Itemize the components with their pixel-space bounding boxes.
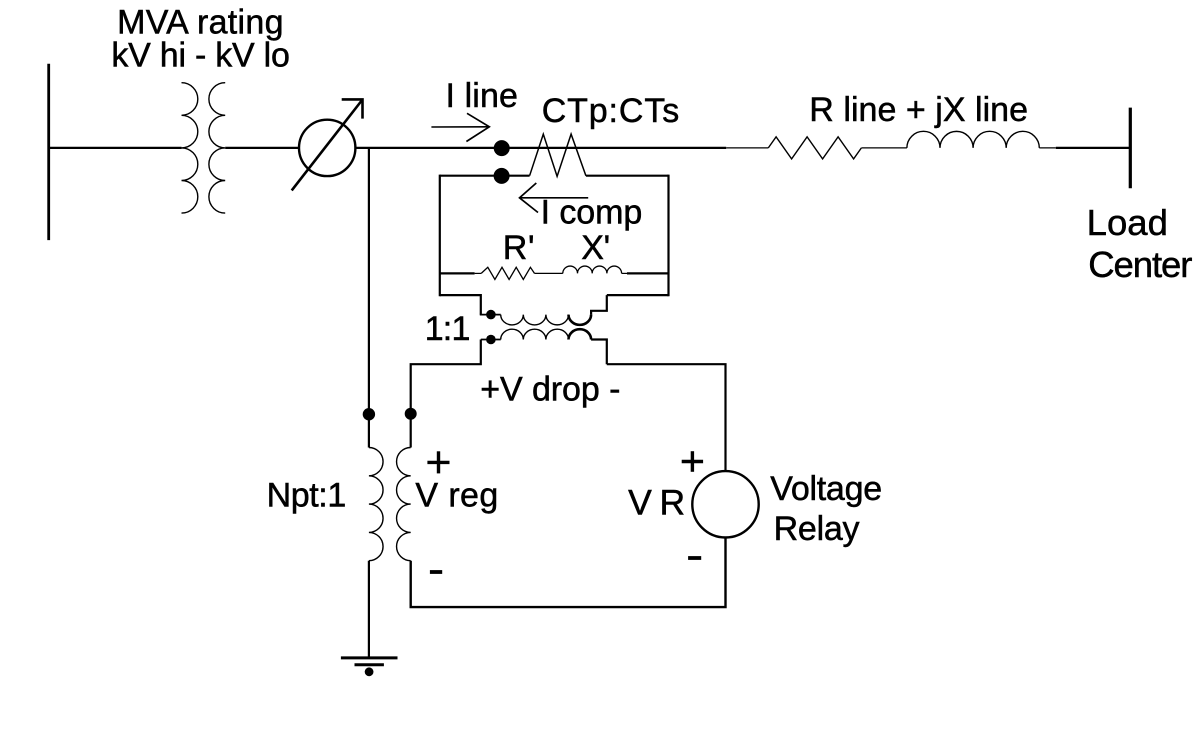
svg-text:Center: Center <box>1088 244 1192 285</box>
label V reg minus (drawn) <box>430 570 442 574</box>
svg-text:V R: V R <box>628 482 684 522</box>
wire relay bottom loop <box>411 538 726 608</box>
wire box left edge <box>439 175 441 297</box>
arrow I line shaft <box>431 126 488 128</box>
node junction on main line <box>494 140 510 156</box>
wire R' to X' <box>535 272 563 274</box>
wire Npt primary to ground <box>368 561 370 658</box>
polarity dot Npt left winding <box>363 408 375 420</box>
svg-text:CTp:CTs: CTp:CTs <box>542 92 680 130</box>
arrow I comp shaft <box>520 197 589 199</box>
regulator arrow shaft <box>292 100 363 191</box>
wire jX line lead out <box>1039 147 1056 149</box>
polarity dot Npt right winding <box>405 408 417 420</box>
current transformer CT zigzag <box>530 134 586 176</box>
wire notch left vertical <box>480 294 482 315</box>
resistor R' zigzag <box>481 267 534 279</box>
wire 1:1 top right hook <box>591 295 607 315</box>
transformer T1 secondary winding (kV lo) <box>209 83 225 213</box>
arrow I line head <box>466 113 489 141</box>
wire X' to box right edge <box>627 272 669 274</box>
label relay plus (drawn) <box>682 460 703 463</box>
polarity dot 1:1 bottom <box>486 335 496 345</box>
transformer T1 primary winding (kV hi) <box>182 83 198 213</box>
transformer 1:1 top winding <box>501 315 569 325</box>
wire regulator to R line (main feeder) <box>355 147 726 149</box>
wire lead R' <box>475 272 482 274</box>
wire lead X' out <box>622 272 627 274</box>
svg-text:Npt:1: Npt:1 <box>267 477 346 515</box>
ground bar 1 <box>341 656 398 659</box>
inductor jX line <box>907 131 1039 148</box>
wire V drop right to relay <box>607 364 726 471</box>
transformer Npt primary winding <box>369 448 383 561</box>
wire to load center bus <box>1056 147 1131 149</box>
regulator arrowhead <box>342 99 363 118</box>
wire box bottom left <box>440 294 481 296</box>
svg-text:R': R' <box>503 229 535 267</box>
svg-text:1:1: 1:1 <box>425 310 470 348</box>
svg-text:Load: Load <box>1087 202 1168 243</box>
svg-text:I comp: I comp <box>541 193 643 231</box>
ground dot <box>365 667 374 676</box>
inductor X' <box>563 266 622 273</box>
wire to 1:1 bottom winding <box>481 339 501 341</box>
svg-text:+V drop -: +V drop - <box>480 371 620 409</box>
wire lead into R line resistor <box>726 147 768 149</box>
wire R line to jX line <box>861 147 907 149</box>
wire bus to transformer T1 <box>49 147 182 149</box>
label V reg plus (drawn) <box>427 461 449 464</box>
transformer 1:1 top winding last turn (bold) <box>569 315 592 325</box>
wire box bottom right <box>607 294 669 296</box>
wire to R' resistor <box>440 272 475 274</box>
svg-text:V reg: V reg <box>415 477 498 515</box>
svg-text:Relay: Relay <box>774 510 860 548</box>
node tap to compensator box <box>494 168 510 184</box>
wire to 1:1 top winding <box>480 314 501 316</box>
transformer 1:1 bottom winding <box>501 329 569 339</box>
bus bar load center <box>1129 108 1132 189</box>
svg-text:R line + jX line: R line + jX line <box>809 91 1028 129</box>
svg-text:Voltage: Voltage <box>770 470 882 508</box>
svg-text:kV hi - kV lo: kV hi - kV lo <box>111 37 289 75</box>
regulator circle <box>299 120 355 176</box>
wire box top left segment <box>440 175 530 177</box>
polarity dot 1:1 top <box>486 310 496 320</box>
resistor R line zigzag <box>768 137 861 159</box>
wire regulator tap down <box>368 148 370 448</box>
wire T1 to regulator <box>225 147 299 149</box>
wire V drop left down <box>411 340 481 448</box>
transformer 1:1 bottom winding last turn (bold) <box>569 329 592 339</box>
wire 1:1 bottom right hook <box>591 340 607 365</box>
transformer Npt secondary winding <box>397 448 411 561</box>
wire box right edge <box>667 175 669 297</box>
ground bar 2 <box>355 663 384 666</box>
wire box top right segment <box>586 175 669 177</box>
bus bar (source bus) <box>47 64 50 240</box>
svg-text:X': X' <box>581 229 610 267</box>
voltage relay circle VR <box>692 471 758 537</box>
svg-text:I line: I line <box>446 77 519 115</box>
label relay minus (drawn) <box>688 556 701 560</box>
arrow I comp head <box>520 183 539 213</box>
